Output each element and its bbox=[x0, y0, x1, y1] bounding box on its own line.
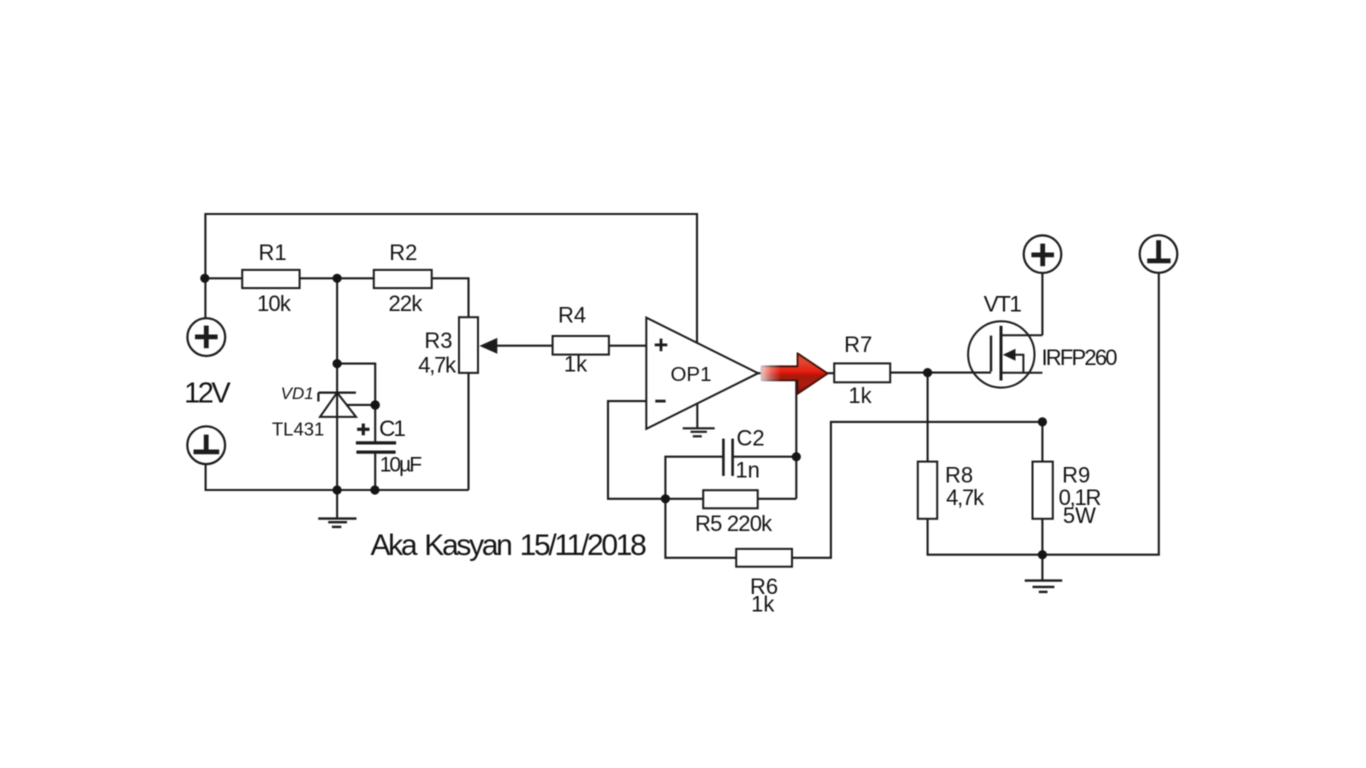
wire C2 right to feedback node bbox=[733, 456, 796, 458]
svg-text:Aka Kasyan 15/11/2018: Aka Kasyan 15/11/2018 bbox=[370, 529, 646, 562]
svg-text:IRFP260: IRFP260 bbox=[1042, 345, 1118, 370]
node gate / R8 bbox=[923, 368, 932, 377]
wire op-amp V+ supply drop bbox=[696, 213, 698, 343]
svg-text:10µF: 10µF bbox=[380, 454, 421, 477]
wire pot wiper to R4 bbox=[497, 345, 553, 347]
potentiometer R3 wiper arrow bbox=[479, 338, 497, 354]
wire C1 bottom to ground rail bbox=[374, 452, 376, 490]
svg-text:R8: R8 bbox=[945, 463, 973, 488]
node ground rail C1 bbox=[370, 485, 379, 494]
ground terminal left bbox=[187, 426, 225, 464]
svg-text:10k: 10k bbox=[257, 291, 292, 316]
wire R5 right to feedback corner bbox=[758, 498, 797, 500]
svg-text:22k: 22k bbox=[388, 291, 423, 316]
node cathode tap bbox=[333, 359, 342, 368]
wire bottom ground rail bbox=[206, 463, 469, 490]
wire R2 to R3 top corner bbox=[432, 278, 469, 317]
svg-text:OP1: OP1 bbox=[670, 363, 711, 386]
svg-text:R1: R1 bbox=[259, 240, 287, 265]
wire feedback vertical from output bbox=[795, 373, 797, 499]
wire op-amp output to R7 bbox=[758, 372, 834, 374]
node R5/R6/C2 left bbox=[661, 494, 670, 503]
svg-text:VT1: VT1 bbox=[984, 292, 1022, 317]
svg-text:R9: R9 bbox=[1062, 463, 1090, 488]
diode VD1 TL431 symbol bbox=[318, 393, 356, 417]
wire C2 left branch bbox=[665, 457, 723, 499]
node left supply bbox=[200, 274, 209, 283]
red signal arrow bbox=[761, 353, 828, 394]
resistor R6 bbox=[736, 549, 792, 567]
resistor R4 bbox=[553, 336, 609, 355]
node source / R9 bbox=[1038, 417, 1047, 426]
capacitor C2 bbox=[723, 439, 732, 476]
svg-text:C2: C2 bbox=[736, 426, 764, 451]
wire TL431 ref to node bbox=[347, 404, 375, 406]
wire source node down to R9 bbox=[1041, 422, 1043, 462]
svg-text:1k: 1k bbox=[564, 352, 588, 377]
ground under VD1 bbox=[318, 519, 356, 527]
wire top supply rail bbox=[205, 213, 697, 215]
ground bottom right bbox=[1025, 581, 1063, 592]
wire node A row: left node to R1 bbox=[205, 277, 242, 279]
wire left vertical from rail to +12V terminal bbox=[204, 213, 206, 318]
wire +supply top to MOSFET drain bbox=[1041, 273, 1043, 335]
resistor R7 bbox=[834, 363, 890, 382]
svg-text:5W: 5W bbox=[1063, 503, 1096, 528]
wire R9 bottom to ground node bbox=[1041, 519, 1043, 555]
wire bottom ground stub right bbox=[1041, 555, 1043, 580]
node bottom ground bbox=[1038, 550, 1047, 559]
svg-text:R3: R3 bbox=[424, 328, 452, 353]
node ground rail VD1 bbox=[333, 485, 342, 494]
svg-text:4,7k: 4,7k bbox=[418, 353, 457, 378]
resistor R2 bbox=[374, 270, 432, 288]
transistor Q VT1 MOSFET bbox=[968, 321, 1042, 387]
svg-text:12V: 12V bbox=[184, 378, 231, 410]
svg-text:TL431: TL431 bbox=[272, 419, 324, 440]
wire R4 to op-amp noninverting input bbox=[609, 345, 646, 347]
wire right earth terminal drop bbox=[1042, 273, 1158, 555]
capacitor C1 bbox=[356, 424, 396, 453]
svg-text:R5 220k: R5 220k bbox=[695, 511, 773, 536]
svg-text:VD1: VD1 bbox=[281, 384, 314, 403]
node TL431 ref / C1 bbox=[371, 400, 380, 409]
svg-text:1k: 1k bbox=[848, 383, 872, 408]
wire gate node down to R8 bbox=[927, 373, 929, 462]
svg-text:1n: 1n bbox=[735, 458, 759, 483]
svg-text:4,7k: 4,7k bbox=[946, 485, 985, 510]
ground terminal top right bbox=[1140, 235, 1178, 273]
wire op-amp ground stub bbox=[696, 404, 698, 428]
resistor R1 bbox=[242, 270, 299, 288]
svg-text:R4: R4 bbox=[558, 302, 586, 327]
power terminal +12V left bbox=[187, 318, 225, 356]
node junction dots bbox=[200, 274, 1047, 560]
node C2 right / feedback bbox=[792, 452, 801, 461]
wire R7 to MOSFET gate bbox=[890, 372, 991, 374]
resistor R5 bbox=[703, 490, 758, 508]
wire R6 right up to source sense line bbox=[792, 422, 1042, 558]
wire R3 bottom to ground rail bbox=[467, 373, 469, 490]
resistor R3 (potentiometer body) bbox=[459, 317, 478, 373]
resistor R8 bbox=[918, 462, 937, 519]
ground under op-amp bbox=[683, 428, 715, 436]
power terminal + top right bbox=[1024, 235, 1062, 273]
resistor R9 bbox=[1033, 462, 1053, 519]
svg-text:C1: C1 bbox=[379, 416, 405, 441]
svg-text:1k: 1k bbox=[751, 592, 775, 617]
svg-text:R7: R7 bbox=[844, 332, 872, 357]
node R1/R2/VD1 bbox=[333, 274, 342, 283]
wire VD1 branch vertical bbox=[336, 278, 338, 490]
wire inverting input down to R5 row bbox=[608, 401, 703, 499]
wire R1 to node B bbox=[300, 277, 374, 279]
wire R8 bottom to ground node bbox=[928, 519, 1043, 555]
op-amp OP1 bbox=[646, 318, 758, 429]
svg-text:R2: R2 bbox=[389, 240, 417, 265]
wire cathode tap to C1 branch bbox=[337, 364, 375, 443]
wire VD1 ground stub bbox=[336, 490, 338, 518]
wire R6 left branch bbox=[665, 499, 736, 558]
